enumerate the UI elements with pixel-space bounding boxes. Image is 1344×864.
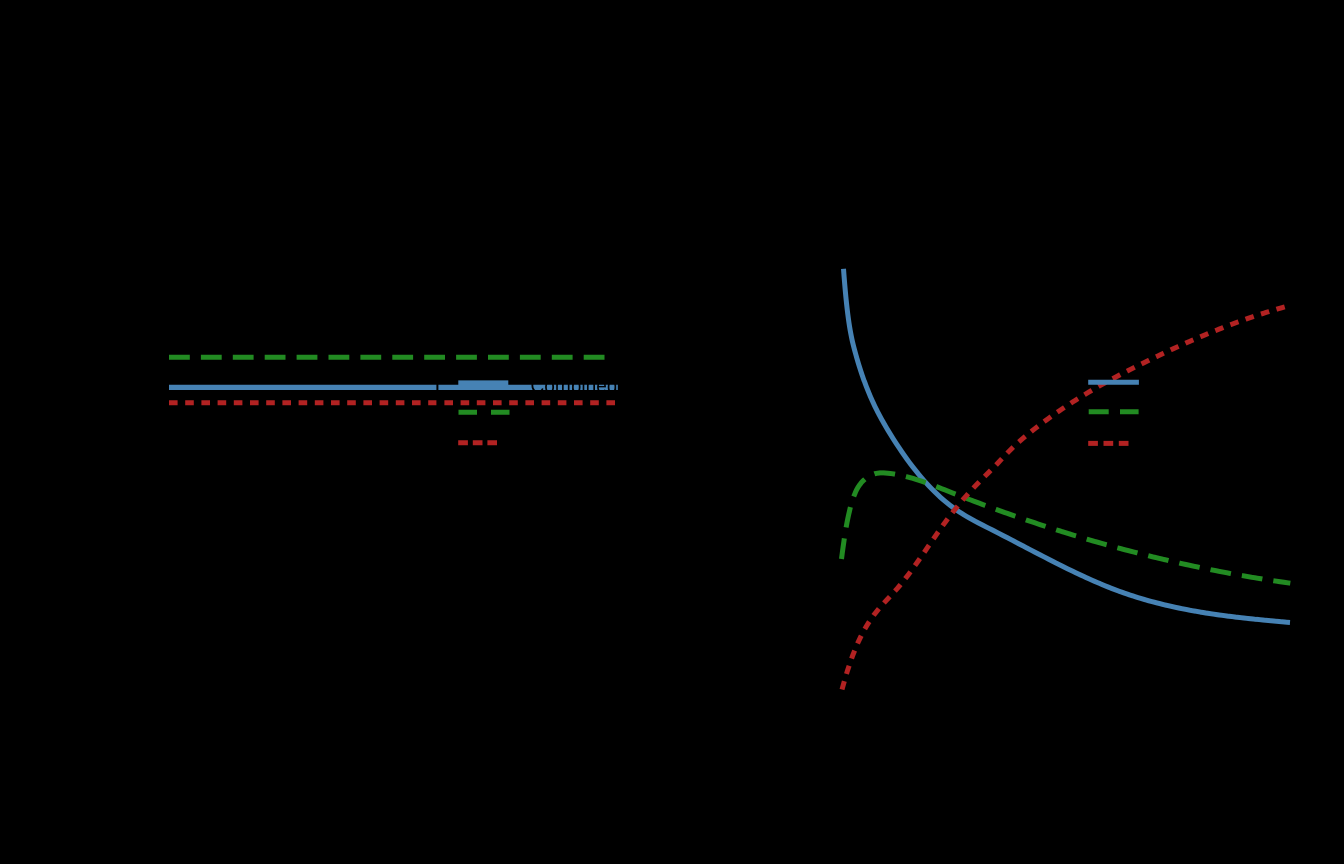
right plot: green dashed curve bbox=[842, 473, 1291, 583]
left legend: green dashed sample bbox=[459, 410, 511, 415]
left plot: blue solid flat line bbox=[169, 385, 618, 390]
right legend: green dashed sample bbox=[1089, 409, 1139, 414]
right plot: blue curve bbox=[844, 269, 1291, 623]
right plot: red dotted curve bbox=[842, 306, 1290, 690]
right legend: red dotted sample bbox=[1088, 441, 1128, 446]
left plot: green dashed flat line bbox=[169, 355, 614, 360]
svg-text:Combined: Combined bbox=[531, 375, 618, 397]
right legend: blue sample bbox=[1088, 380, 1139, 385]
left legend: red dotted sample bbox=[458, 440, 497, 445]
left legend: blue sample bbox=[458, 380, 508, 385]
left legend frame edge (black, cuts blue line) bbox=[436, 368, 438, 457]
left plot: red dotted flat line bbox=[169, 400, 618, 405]
